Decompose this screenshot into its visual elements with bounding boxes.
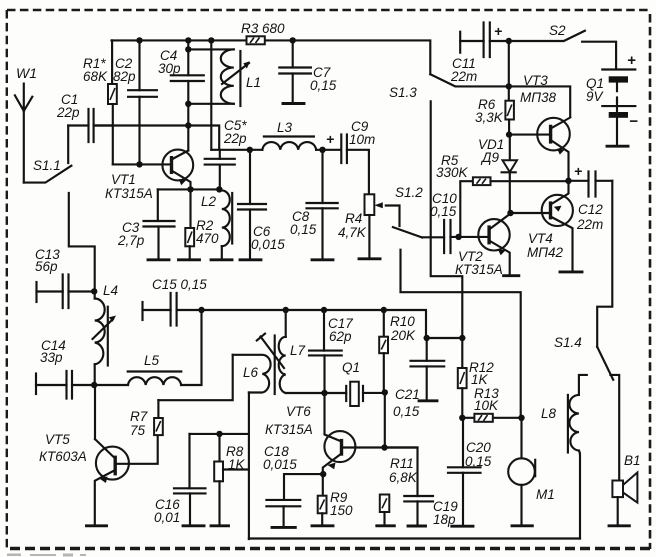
svg-text:3,3K: 3,3K — [475, 110, 504, 125]
svg-text:0,15: 0,15 — [465, 454, 492, 469]
wire C12 to S1.4 — [597, 181, 612, 347]
potentiometer R4 — [338, 194, 400, 258]
node Q1-R10 riser — [382, 389, 388, 395]
resistor R7 — [130, 400, 163, 438]
svg-text:L5: L5 — [144, 353, 160, 368]
wire VT1 base line — [113, 163, 172, 165]
speaker B1 — [609, 453, 641, 526]
svg-text:C12: C12 — [578, 202, 603, 217]
svg-text:82p: 82p — [113, 69, 136, 84]
svg-text:75: 75 — [130, 423, 146, 438]
node L7 top — [283, 307, 289, 313]
node R8 top — [216, 431, 222, 437]
inductor L5 — [94, 310, 201, 385]
svg-text:C21: C21 — [395, 387, 420, 402]
switch S1.3 — [389, 74, 509, 100]
node C15-L5 riser — [198, 307, 204, 313]
capacitor C17 — [309, 310, 353, 393]
capacitor C7 — [279, 40, 336, 103]
dashed frame border left — [6, 10, 8, 549]
svg-text:M1: M1 — [536, 487, 555, 502]
node M1-R13 — [518, 415, 524, 421]
wire Q1 crystal line — [325, 392, 385, 394]
capacitor C9 electrolytic — [326, 119, 375, 194]
antenna W1 — [15, 65, 37, 183]
svg-text:56p: 56p — [35, 259, 58, 274]
svg-text:КТ315А: КТ315А — [265, 422, 313, 437]
capacitor C14 — [36, 338, 94, 399]
capacitor C15 — [143, 277, 208, 326]
svg-text:R11: R11 — [390, 456, 414, 471]
inductor L3 — [211, 120, 340, 150]
switch S1.1 — [24, 126, 72, 183]
resistor R2 — [179, 189, 220, 259]
wire C5 riser from bus to L3 line — [210, 40, 212, 149]
transformer L7 — [279, 310, 324, 393]
wire C15 line — [177, 310, 426, 338]
capacitor C8 — [290, 150, 338, 260]
dashed frame border top — [7, 9, 651, 11]
node R10 top — [381, 307, 387, 313]
resistor R11 — [377, 456, 418, 526]
svg-text:VT3: VT3 — [523, 73, 548, 88]
svg-text:S1.1: S1.1 — [33, 158, 61, 173]
capacitor C13 — [35, 247, 94, 308]
inductor L1 — [188, 49, 261, 106]
capacitor C12 electrolytic — [569, 163, 613, 232]
resistor R10 — [379, 310, 416, 448]
resistor R9 — [312, 490, 353, 526]
svg-text:+: + — [494, 23, 502, 39]
wire VT1 emitter line — [158, 188, 222, 190]
svg-text:L1: L1 — [246, 75, 261, 90]
node VT1 collector riser — [185, 122, 191, 128]
transformer L6 — [233, 355, 271, 393]
svg-text:0,15: 0,15 — [393, 404, 420, 419]
faint cut text below frame — [7, 554, 86, 557]
svg-text:33p: 33p — [40, 350, 63, 365]
node VT3 emitter / C12 — [565, 178, 571, 184]
wire R8 C16 line — [190, 433, 249, 435]
node S1.3-R6 — [506, 83, 512, 89]
svg-text:L8: L8 — [541, 406, 557, 421]
node VT6 base / C17 / L7 — [321, 390, 327, 396]
wire C1 to VT1 collector line — [94, 126, 220, 150]
svg-text:4,7K: 4,7K — [338, 225, 367, 240]
wire VT5 base riser — [94, 385, 96, 439]
node C21 top — [424, 335, 430, 341]
resistor R3 — [241, 21, 285, 44]
capacitor C10 — [422, 191, 489, 253]
wire S1.3 lower branch long vertical — [431, 101, 463, 368]
svg-text:470: 470 — [196, 231, 219, 246]
svg-text:КТ315А: КТ315А — [455, 262, 503, 277]
capacitor C19 — [385, 448, 459, 528]
top supply bus — [112, 40, 431, 74]
node VT6 collector / R11 — [381, 444, 387, 450]
svg-text:S1.3: S1.3 — [389, 85, 417, 100]
svg-text:+: + — [574, 163, 582, 179]
svg-text:C20: C20 — [466, 440, 491, 455]
transformer core L6/L7 — [274, 336, 276, 395]
inductor L4 — [93, 283, 119, 385]
wire L6 bottom to R8/C16 bus — [248, 393, 250, 540]
svg-text:0,15: 0,15 — [310, 78, 337, 93]
svg-text:VT1: VT1 — [111, 172, 136, 187]
svg-text:VT4: VT4 — [528, 231, 553, 246]
svg-text:R3 680: R3 680 — [241, 21, 285, 36]
svg-text:КТ603А: КТ603А — [39, 449, 87, 464]
svg-text:18p: 18p — [433, 512, 456, 527]
node L4 top — [91, 288, 97, 294]
capacitor C21 — [393, 338, 462, 419]
node L1 top — [185, 46, 191, 52]
svg-text:S1.2: S1.2 — [395, 185, 423, 200]
svg-text:1K: 1K — [471, 372, 489, 387]
svg-text:−: − — [629, 113, 638, 130]
svg-text:9V: 9V — [586, 89, 605, 104]
svg-text:2,7p: 2,7p — [117, 233, 145, 248]
capacitor C3 — [117, 189, 175, 259]
svg-text:VT6: VT6 — [286, 404, 311, 419]
svg-text:+: + — [627, 52, 636, 69]
capacitor C4 — [158, 40, 204, 125]
svg-text:0,01: 0,01 — [154, 510, 180, 525]
switch S2 — [509, 23, 616, 69]
svg-text:0,015: 0,015 — [251, 237, 285, 252]
node R12-R13 — [459, 415, 465, 421]
node bus-C2 — [136, 37, 142, 43]
svg-text:L2: L2 — [201, 194, 217, 209]
wire S1.2 pole down to lower section — [401, 250, 521, 418]
svg-text:S2: S2 — [549, 23, 566, 38]
transistor VT1 — [105, 126, 193, 202]
node emitter-L2 — [216, 186, 222, 192]
transistor VT3 — [509, 73, 570, 181]
node bus-C5 riser — [208, 37, 214, 43]
svg-text:VT5: VT5 — [45, 432, 70, 447]
microphone M1 — [508, 418, 555, 526]
svg-text:30p: 30p — [158, 61, 181, 76]
capacitor C16 — [154, 434, 206, 526]
node VT2 collector / VT4 base — [507, 210, 513, 216]
switch S1.2 blade — [393, 185, 423, 238]
svg-text:0,015: 0,015 — [263, 457, 297, 472]
node base-R1-C2 — [136, 161, 142, 167]
svg-text:L3: L3 — [277, 120, 293, 135]
svg-text:W1: W1 — [16, 65, 37, 81]
svg-text:L6: L6 — [243, 365, 259, 380]
svg-text:150: 150 — [330, 503, 353, 518]
transistor VT5 — [39, 432, 158, 526]
svg-text:S1.4: S1.4 — [554, 335, 582, 350]
diode VD1 — [478, 135, 517, 213]
svg-text:20K: 20K — [390, 328, 416, 343]
node bus-C4 — [185, 37, 191, 43]
transistor VT4 — [511, 181, 583, 272]
inductor L8 — [541, 375, 587, 539]
svg-text:R7: R7 — [130, 409, 148, 424]
dashed frame border bottom — [10, 547, 651, 550]
svg-text:1K: 1K — [228, 457, 246, 472]
node emitter-R2 — [187, 186, 193, 192]
svg-text:0,15: 0,15 — [290, 222, 317, 237]
transistor VT2 — [455, 214, 519, 278]
node C18-emitter — [320, 471, 326, 477]
svg-text:10m: 10m — [349, 132, 375, 147]
svg-text:R10: R10 — [390, 314, 415, 329]
node L4 bottom — [91, 382, 97, 388]
capacitor C2 — [113, 40, 157, 164]
transistor VT6 — [265, 393, 418, 496]
crystal Q1 — [342, 360, 363, 406]
svg-text:Q1: Q1 — [342, 360, 360, 375]
capacitor C20 — [448, 418, 492, 526]
node C10-R5 — [455, 234, 461, 240]
capacitor C6 — [238, 150, 285, 260]
battery Q1 9V — [586, 52, 638, 146]
inductor L2 — [201, 190, 232, 259]
switch S1.4 — [554, 335, 619, 481]
svg-text:6,8K: 6,8K — [389, 470, 418, 485]
svg-text:L4: L4 — [103, 283, 118, 298]
svg-text:330K: 330K — [436, 165, 469, 180]
svg-text:0,15: 0,15 — [430, 204, 457, 219]
svg-text:+: + — [326, 131, 334, 147]
capacitor C1 — [56, 92, 113, 142]
node L1 bottom — [185, 101, 191, 107]
resistor R13 — [462, 386, 521, 422]
capacitor C5* — [205, 118, 248, 189]
svg-text:22p: 22p — [56, 105, 80, 120]
capacitor C18 — [263, 444, 323, 527]
resistor R8 — [211, 434, 249, 526]
adjustment arrow L6/L7 — [257, 334, 284, 368]
svg-text:L7: L7 — [290, 343, 306, 358]
node C21 line right — [459, 335, 465, 341]
svg-text:Д9: Д9 — [480, 150, 500, 165]
node R6-VT3 base — [506, 131, 512, 137]
svg-text:22m: 22m — [450, 69, 477, 84]
node C17 top — [321, 307, 327, 313]
svg-text:МП38: МП38 — [520, 90, 557, 105]
svg-text:МП42: МП42 — [527, 245, 564, 260]
node L3 right / C8 — [319, 147, 325, 153]
node bus-C7 — [290, 37, 296, 43]
node L3 left — [247, 147, 253, 153]
capacitor C11 electrolytic — [450, 23, 509, 85]
svg-text:22m: 22m — [576, 217, 603, 232]
svg-text:10K: 10K — [474, 398, 499, 413]
wire R7 top to L6 top — [158, 355, 232, 400]
svg-text:R4: R4 — [345, 211, 362, 226]
resistor R5 — [436, 153, 569, 237]
svg-text:КТ315А: КТ315А — [105, 186, 153, 201]
svg-text:C15 0,15: C15 0,15 — [152, 277, 207, 292]
wire S1.1 lower branch to L4 — [69, 193, 95, 291]
svg-text:62p: 62p — [329, 329, 352, 344]
node C11-S2 — [506, 38, 512, 44]
dashed frame border right — [649, 14, 652, 549]
svg-text:22p: 22p — [223, 131, 247, 146]
svg-text:B1: B1 — [624, 453, 641, 468]
resistor R1 — [83, 40, 117, 164]
bottom long wire — [249, 537, 580, 539]
resistor R6 — [475, 41, 514, 135]
wire S1.3 line to VT3 collector — [509, 86, 570, 117]
resistor R12 — [458, 360, 494, 418]
svg-text:68K: 68K — [83, 69, 108, 84]
